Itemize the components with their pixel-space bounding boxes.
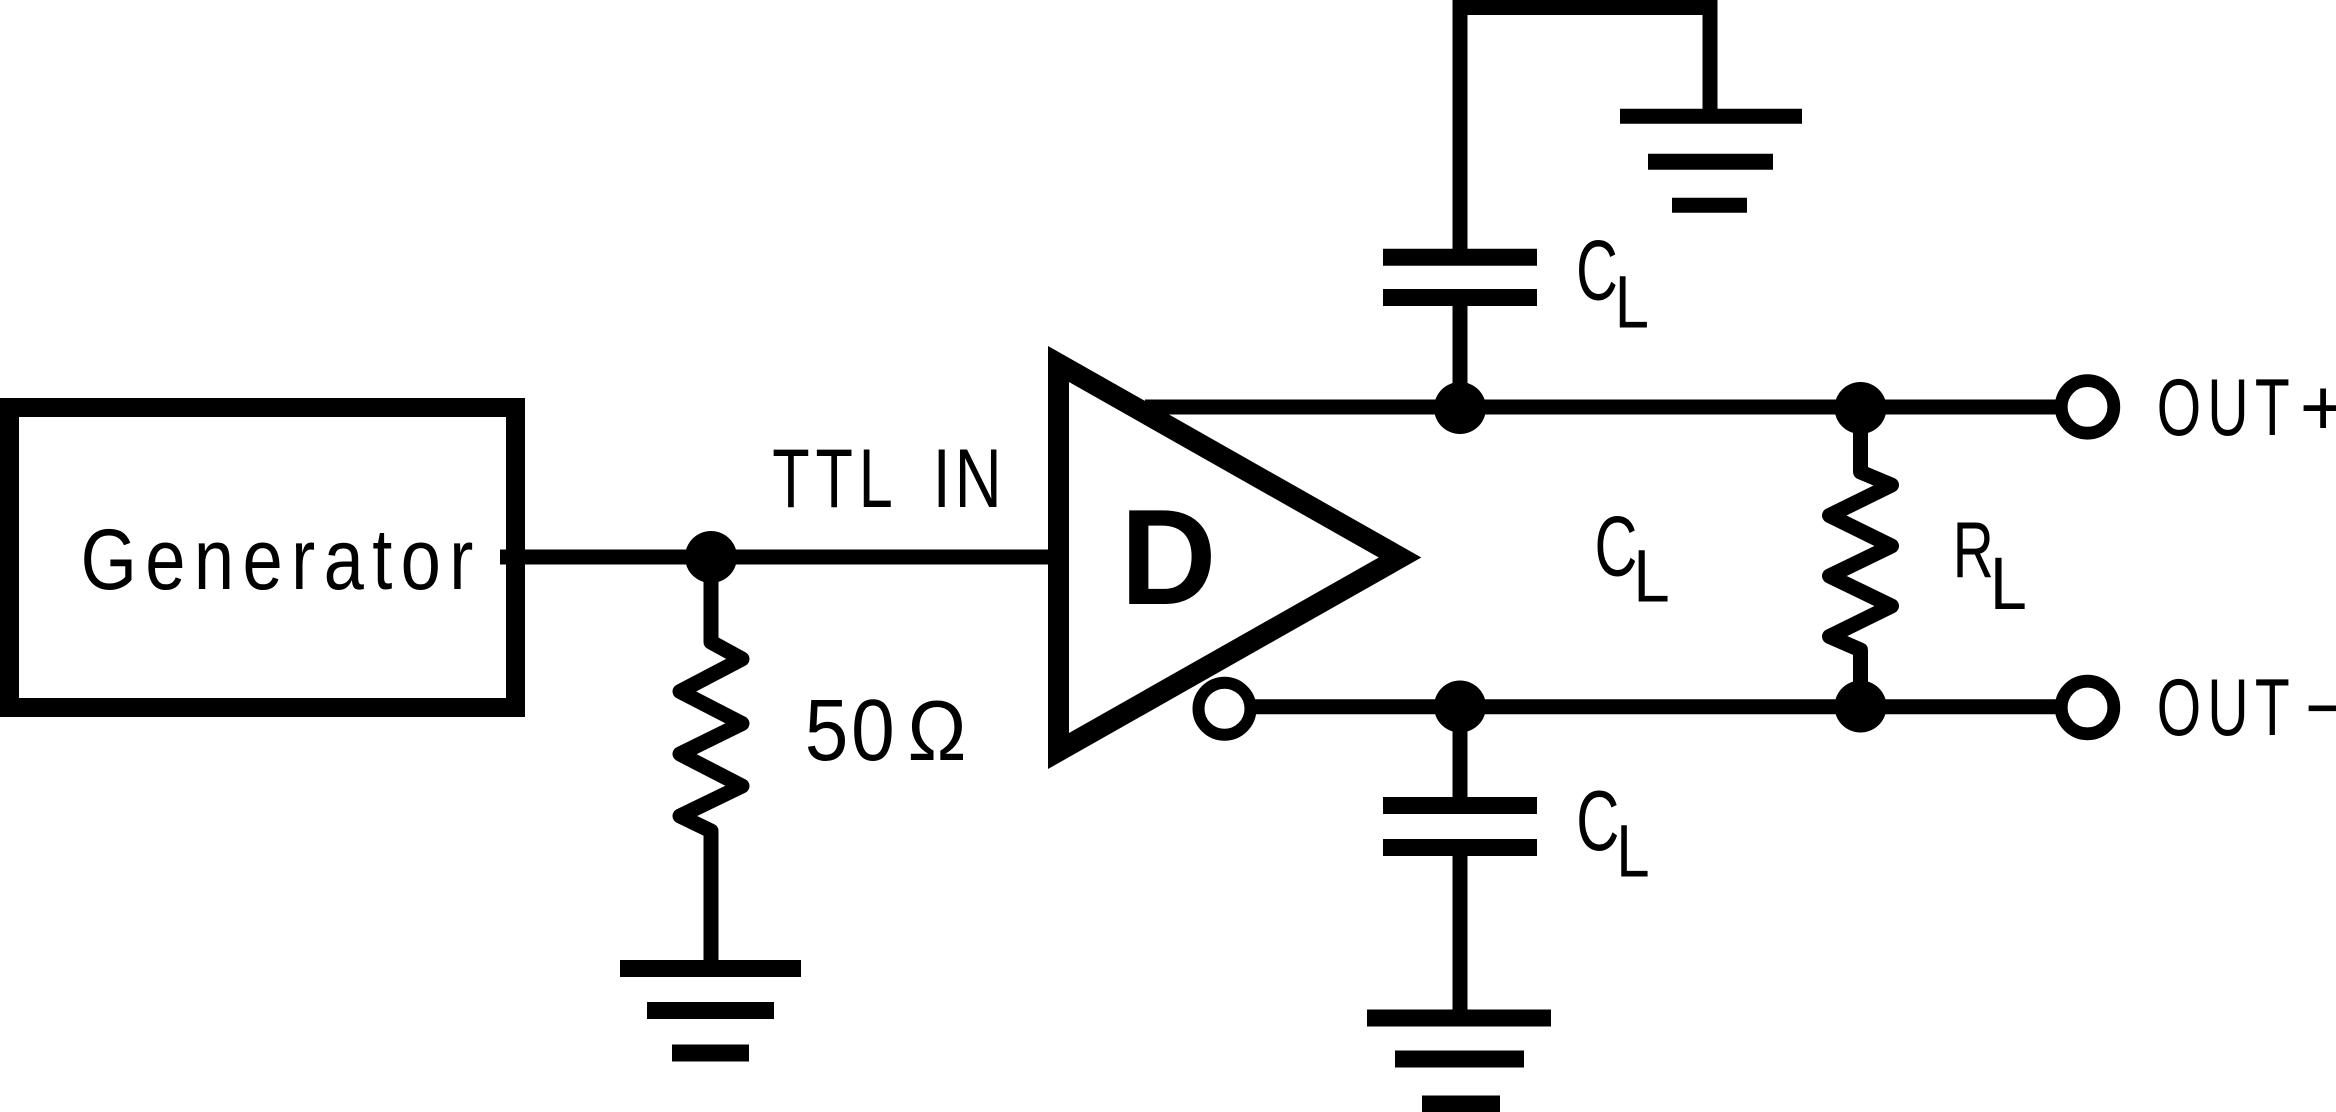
wire generator to driver input xyxy=(500,550,1062,565)
resistor RL xyxy=(1830,407,1892,707)
svg-text:OUT: OUT xyxy=(2157,363,2296,453)
wire node to capacitor CL top xyxy=(1453,306,1468,408)
svg-text:C: C xyxy=(1576,222,1618,318)
svg-text:Generator: Generator xyxy=(81,512,482,608)
svg-text:R: R xyxy=(1953,505,1994,594)
node RL bottom xyxy=(1835,681,1887,733)
svg-text:L: L xyxy=(1633,533,1670,617)
generator box xyxy=(10,408,516,708)
capacitor CL bottom xyxy=(1383,806,1537,848)
node TTL IN junction xyxy=(685,531,737,583)
svg-text:L: L xyxy=(1616,809,1649,893)
svg-text:C: C xyxy=(1576,773,1619,869)
terminal OUT+ xyxy=(2061,381,2114,434)
driver U1 triangle xyxy=(1059,364,1401,751)
svg-text:+: + xyxy=(2300,363,2336,453)
node OUT- at CL bottom xyxy=(1434,681,1486,733)
wire OUT- rail xyxy=(1255,699,2056,714)
svg-text:L: L xyxy=(1990,541,2027,625)
wire capacitor bottom to ground xyxy=(1453,856,1468,1018)
wire OUT+ rail xyxy=(1145,400,2056,415)
svg-text:L: L xyxy=(1615,260,1649,344)
ground bottom middle xyxy=(1367,1018,1551,1104)
svg-text:OUT: OUT xyxy=(2157,663,2296,753)
svg-text:TTL: TTL xyxy=(772,431,898,525)
ground top right xyxy=(1620,116,1802,205)
node OUT+ at CL top xyxy=(1434,382,1486,434)
svg-text:−: − xyxy=(2305,663,2336,753)
svg-text:IN: IN xyxy=(933,431,1006,525)
inverting output bubble xyxy=(1199,683,1251,735)
wire capacitor top to ground loop xyxy=(1460,8,1710,250)
svg-text:C: C xyxy=(1595,499,1638,595)
resistor 50 ohm xyxy=(680,557,742,968)
svg-text:50: 50 xyxy=(805,682,898,779)
capacitor CL top xyxy=(1383,257,1537,297)
terminal OUT- xyxy=(2061,681,2114,734)
node RL top xyxy=(1835,382,1887,434)
svg-text:Ω: Ω xyxy=(908,684,967,779)
ground below 50 ohm resistor xyxy=(620,969,801,1054)
wire node to capacitor CL bottom xyxy=(1453,707,1468,798)
svg-text:D: D xyxy=(1120,481,1216,633)
